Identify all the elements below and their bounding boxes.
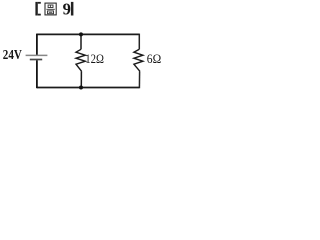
svg-text:6Ω: 6Ω	[147, 52, 161, 67]
title glyph 圖	[45, 3, 56, 15]
title bracket 】	[71, 2, 74, 16]
node junction dot top (middle branch)	[79, 32, 83, 36]
wire: top conductor	[37, 33, 139, 35]
battery B1 long plate (+)	[26, 54, 48, 56]
label 6 ohm	[147, 52, 161, 67]
label 12 ohm	[85, 52, 104, 66]
node junction dot bottom (middle branch)	[79, 86, 83, 90]
wire: left conductor lower (from battery)	[36, 60, 38, 88]
svg-text:12Ω: 12Ω	[85, 52, 104, 66]
wire: left conductor upper (to battery)	[36, 34, 38, 56]
resistor R1 zigzag (12 ohm)	[76, 49, 85, 71]
wire: bottom conductor	[37, 87, 139, 89]
label 24V	[3, 47, 22, 62]
wire: right conductor upper stub	[138, 34, 140, 50]
svg-text:9: 9	[63, 0, 71, 18]
title bracket 【	[35, 2, 40, 16]
wire: right conductor lower stub	[138, 71, 140, 88]
battery B1 short plate (-)	[30, 59, 42, 61]
svg-text:24V: 24V	[3, 47, 22, 62]
resistor R2 zigzag (6 ohm)	[134, 49, 143, 71]
wire: middle branch upper stub	[80, 34, 82, 50]
wire: middle branch lower stub	[80, 71, 82, 87]
